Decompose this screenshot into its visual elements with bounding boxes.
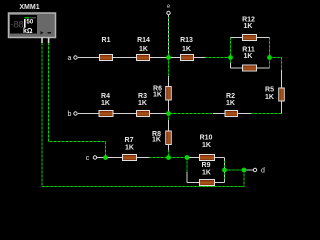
svg-text:R2: R2 (226, 93, 235, 100)
svg-text:1K: 1K (101, 100, 110, 107)
multimeter scale dots (31, 17, 32, 18)
svg-text:1K: 1K (182, 46, 191, 53)
svg-text:e: e (167, 3, 171, 10)
wire R12/R11 right vertical (269, 38, 271, 69)
resistor R10 1K (200, 135, 215, 161)
svg-text:R5: R5 (265, 87, 274, 94)
svg-text:1K: 1K (139, 46, 148, 53)
resistor R9 1K (200, 162, 215, 186)
wire R11 row white (231, 67, 270, 69)
junction R11/R12 right node (267, 55, 272, 60)
svg-text:1K: 1K (153, 92, 162, 99)
multimeter terminal pin + (41, 38, 43, 44)
wire R5 column white (281, 70, 283, 114)
terminal b (68, 111, 78, 118)
terminal d (253, 168, 265, 175)
junction row-a center (166, 55, 171, 60)
wire R10/R9 left vertical green part (186, 158, 188, 183)
svg-text:1K: 1K (125, 145, 134, 152)
resistor R2 1K (225, 93, 238, 117)
resistor R11 1K (242, 47, 256, 72)
resistor R4 1K (99, 93, 113, 117)
wire R12 row white (231, 37, 270, 39)
resistor R14 1K (137, 37, 151, 61)
wire node d row green (225, 169, 245, 171)
multimeter reading 1 bar (24, 19, 26, 28)
multimeter - terminal mark (48, 32, 52, 34)
svg-text:R13: R13 (180, 37, 193, 44)
wire row-b green segments (170, 113, 282, 115)
svg-text:1K: 1K (244, 53, 253, 60)
svg-text:1K: 1K (202, 142, 211, 149)
multimeter + terminal mark (41, 31, 44, 35)
svg-text:b: b (68, 111, 72, 118)
multimeter XMM1 (9, 4, 56, 43)
resistor R8 1K (vertical) (152, 131, 171, 145)
svg-text:1K: 1K (265, 94, 274, 101)
svg-text:1K: 1K (244, 23, 253, 30)
wire center column white (node e lead, R6 leads, R8 leads) (168, 15, 170, 150)
resistor R12 1K (242, 17, 256, 41)
resistor R13 1K (180, 37, 193, 61)
svg-text:R9: R9 (202, 162, 211, 169)
wire right node to R5 top (270, 58, 282, 71)
resistor R7 1K (123, 137, 137, 161)
junction R10/R9 left node (185, 155, 190, 160)
wire XMM1 negative lead (left terminal down, along bottom, up to node d net) (42, 43, 244, 187)
wire row-c white (node c lead, R7 leads, R10 leads) (97, 157, 225, 159)
svg-text:50: 50 (27, 20, 34, 26)
svg-text:R10: R10 (200, 135, 213, 142)
svg-text:a: a (68, 55, 72, 62)
resistor R5 1K (vertical) (265, 87, 284, 102)
svg-text:R4: R4 (101, 93, 110, 100)
wire row-c green segment (R7 to R10/R9 block) (149, 157, 187, 159)
junction R11/R12 left node (228, 55, 233, 60)
terminal e (167, 3, 171, 15)
svg-text:1K: 1K (138, 100, 147, 107)
wire row-a white (node a through R1 R14 R13) (78, 57, 205, 59)
junction row-c center (166, 155, 171, 160)
multimeter display (10, 15, 37, 34)
junction row-b center (166, 111, 171, 116)
junction R10/R9 right node (222, 168, 227, 173)
terminal a (68, 55, 78, 62)
svg-text:1K: 1K (226, 100, 235, 107)
svg-text:R1: R1 (102, 37, 111, 44)
svg-text:1K: 1K (202, 170, 211, 177)
svg-text:-88: -88 (11, 20, 24, 31)
wire R9 row white (187, 182, 225, 184)
svg-text:R3: R3 (138, 93, 147, 100)
svg-text:c: c (86, 155, 90, 162)
multimeter green indicator (25, 17, 30, 19)
wire node d lead white (246, 169, 253, 171)
resistor R3 1K (137, 93, 150, 117)
wire XMM1 positive lead (right terminal down, right to node c) (49, 43, 106, 158)
terminal c (86, 155, 97, 162)
svg-text:1K: 1K (152, 137, 161, 144)
resistor R1 (100, 37, 113, 61)
wire row-b white (node b through R4 R3), R2 leads (78, 113, 251, 115)
wire R10/R9 right vertical white with green dash overlay (224, 158, 226, 183)
wire center column green segments (node e net) (168, 58, 170, 158)
resistor R6 1K (vertical) (153, 86, 171, 101)
junction node c entry (103, 155, 108, 160)
wire R12/R11 left vertical (230, 38, 232, 69)
junction node d wire corner (242, 168, 247, 173)
multimeter terminal pin - (48, 38, 50, 44)
svg-text:d: d (261, 168, 265, 175)
svg-text:kΩ: kΩ (23, 28, 33, 35)
svg-text:R7: R7 (125, 137, 134, 144)
svg-text:XMM1: XMM1 (19, 4, 39, 11)
svg-text:R14: R14 (137, 37, 150, 44)
wire row-a right segment (R13 to R11/R12 left node, green) (205, 57, 231, 59)
